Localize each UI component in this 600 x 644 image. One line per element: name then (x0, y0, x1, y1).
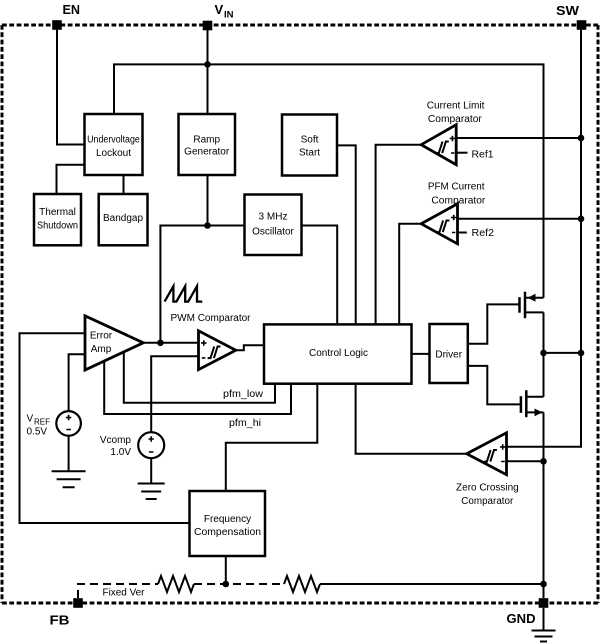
wire Control Logic to Frequency Compensation (226, 384, 317, 492)
node ZC- junction (540, 458, 547, 465)
box Ramp Generator (179, 114, 236, 175)
svg-text:IN: IN (224, 10, 234, 21)
svg-text:V: V (215, 2, 224, 17)
svg-text:Ramp: Ramp (193, 134, 220, 145)
wire VREF to error amp (69, 354, 85, 411)
wire divider to GND line (320, 583, 544, 585)
wire error amp input from FB network to Frequency Compensation (20, 333, 190, 523)
svg-text:Control Logic: Control Logic (309, 348, 368, 359)
svg-text:REF: REF (34, 418, 50, 427)
node PFM+ junction on SW line (578, 216, 585, 223)
wire switch node between MOSFETs (543, 312, 545, 396)
comparator Current Limit Comparator (421, 101, 494, 165)
ground below VREF (52, 436, 86, 488)
wire Driver to low-side gate (468, 366, 521, 405)
svg-text:Comparator: Comparator (428, 114, 483, 125)
node SW line junction (578, 350, 585, 357)
ground below Vcomp (138, 458, 165, 499)
svg-text:Compensation: Compensation (194, 527, 261, 538)
wire PFM Comparator + input from SW (458, 218, 581, 220)
wire Current Limit Comparator output to Control Logic (376, 145, 422, 324)
wire SW line down to Zero Crossing + input (507, 30, 581, 447)
resistor R1 Fixed Ver divider top (158, 576, 194, 592)
svg-text:Thermal: Thermal (39, 207, 76, 218)
wire pfm_low from error amp to Control Logic (124, 353, 275, 403)
wire Ref2 stub (458, 232, 467, 234)
op-amp Error Amp (85, 316, 143, 370)
wire PWM comparator output to Control Logic (236, 345, 265, 350)
svg-text:Undervoltage: Undervoltage (87, 135, 140, 146)
svg-text:Fixed Ver: Fixed Ver (103, 588, 146, 599)
wire Frequency Compensation output down to divider (225, 556, 227, 584)
box Soft Start (282, 115, 337, 176)
svg-text:Soft: Soft (301, 134, 319, 145)
wire Driver to high-side gate (468, 304, 520, 343)
svg-text:Start: Start (299, 148, 320, 159)
comparator Zero Crossing Comparator (456, 433, 519, 507)
svg-text:0.5V: 0.5V (27, 427, 48, 438)
pin FB (50, 598, 83, 627)
wire Current Limit Comparator + input from SW (457, 137, 582, 139)
node switch node junction (540, 350, 547, 357)
box Thermal Shutdown (34, 194, 81, 245)
svg-text:GND: GND (507, 611, 536, 626)
wire Zero Crossing - input to GND line (507, 460, 544, 462)
svg-text:3 MHz: 3 MHz (259, 212, 288, 223)
wire VIN down to Ramp Generator (207, 30, 209, 115)
comparator PFM Current Comparator (421, 182, 494, 244)
source VREF 0.5V (27, 411, 81, 437)
node ramp/error junction (157, 340, 164, 347)
svg-text:Shutdown: Shutdown (37, 221, 78, 232)
wire Ref1 stub (457, 152, 468, 154)
svg-text:Generator: Generator (184, 147, 230, 158)
svg-text:PFM Current: PFM Current (428, 182, 485, 193)
transistor M1 high-side MOSFET (520, 292, 544, 319)
comparator PWM Comparator (171, 313, 252, 370)
svg-text:Zero Crossing: Zero Crossing (456, 483, 519, 494)
svg-text:Ref1: Ref1 (472, 150, 494, 161)
svg-text:SW: SW (556, 3, 580, 18)
wire Zero Crossing output to Control Logic (356, 384, 467, 454)
svg-text:Vcomp: Vcomp (100, 435, 132, 446)
source Vcomp 1.0V (100, 432, 164, 458)
svg-text:pfm_hi: pfm_hi (229, 418, 261, 429)
box Control Logic (264, 324, 412, 383)
svg-text:Driver: Driver (435, 349, 462, 360)
wire Soft Start output to Control Logic (337, 145, 356, 324)
svg-text:1.0V: 1.0V (110, 447, 131, 458)
pin EN (52, 2, 80, 30)
svg-text:Amp: Amp (91, 344, 112, 355)
wire VIN top rail to UVL top and high-side FET drain (114, 64, 544, 297)
svg-text:pfm_low: pfm_low (223, 389, 264, 400)
wire switch node to SW line (544, 352, 582, 354)
wire UVL to Thermal Shutdown (57, 165, 85, 195)
svg-text:Current Limit: Current Limit (427, 101, 485, 112)
svg-text:Comparator: Comparator (461, 496, 514, 507)
pin SW (556, 3, 586, 30)
wire Ramp Generator down (207, 175, 209, 226)
wire oscillator line left and down to PWM input (160, 226, 245, 343)
wire Control Logic to Driver (412, 353, 430, 355)
wire pfm_hi from error amp to Control Logic (104, 362, 291, 415)
svg-text:PWM Comparator: PWM Comparator (171, 313, 252, 324)
box Bandgap (99, 194, 148, 245)
svg-text:Lockout: Lockout (96, 148, 131, 159)
ground external below GND pin (532, 608, 556, 642)
svg-text:Error: Error (90, 331, 113, 342)
node CLC+ junction on SW line (578, 135, 585, 142)
node FC output junction (223, 581, 230, 588)
wire EN to Undervoltage Lockout (57, 30, 85, 145)
svg-text:Oscillator: Oscillator (252, 227, 294, 238)
wire dashed divider middle (194, 583, 284, 585)
node divider GND junction (540, 581, 547, 588)
svg-text:Ref2: Ref2 (472, 228, 495, 239)
svg-text:V: V (27, 414, 34, 425)
resistor R2 Fixed Ver divider bottom (284, 576, 320, 592)
wire low-side source to GND pin (543, 412, 545, 598)
wire dashed FB feedback line (78, 584, 158, 598)
transistor M2 low-side MOSFET (521, 390, 544, 417)
box Frequency Compensation (190, 491, 266, 556)
wire PFM Current Comparator output to Control Logic (399, 224, 421, 324)
box Undervoltage Lockout (85, 114, 143, 175)
pin VIN (203, 2, 234, 30)
node ramp junction (204, 222, 211, 229)
wire oscillator output to Control Logic (302, 226, 338, 325)
svg-text:Comparator: Comparator (431, 195, 486, 206)
wire UVL to Bandgap (123, 175, 125, 195)
svg-text:EN: EN (63, 2, 81, 17)
box Driver (430, 324, 468, 383)
sawtooth ramp symbol (165, 286, 203, 301)
svg-text:FB: FB (50, 613, 70, 628)
svg-text:Frequency: Frequency (204, 514, 251, 525)
wire error amp output to PWM comparator (143, 342, 199, 344)
node VIN rail junction (204, 61, 211, 68)
wire Vcomp to PWM comparator - input (151, 356, 198, 432)
svg-text:Bandgap: Bandgap (103, 213, 143, 224)
box 3 MHz Oscillator (245, 195, 302, 256)
pin GND (507, 598, 549, 626)
